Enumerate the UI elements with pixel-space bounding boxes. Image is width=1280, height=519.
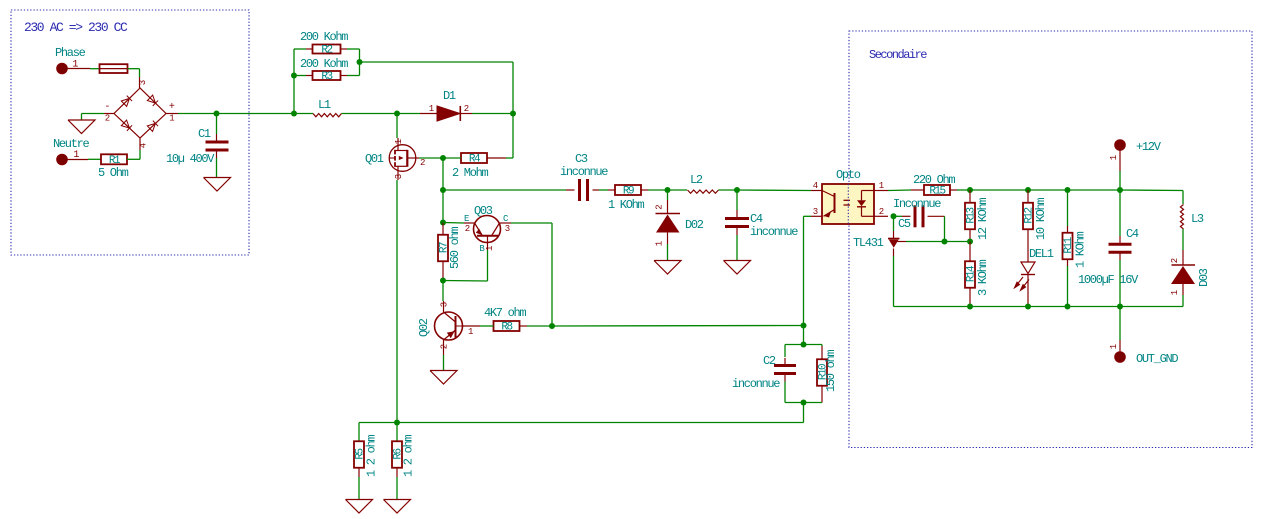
wire C4 node to opto pin4 (737, 189, 811, 192)
wire bus C1 to R2R3 rail (217, 113, 295, 115)
junction DEL1 bottom (1025, 304, 1031, 310)
wire R4 right up to D1 node (487, 114, 513, 159)
wire snubber bottom to sense rail (397, 403, 804, 423)
label C4 filter value inconnue (750, 225, 798, 239)
wire Q01 source down to sense node (396, 180, 398, 423)
wire OUT_GND node down (1119, 307, 1121, 353)
label R13 value 12 KOhm (976, 198, 990, 240)
svg-text:+: + (169, 102, 175, 113)
svg-text:150 ohm: 150 ohm (824, 350, 838, 392)
svg-text:560 ohm: 560 ohm (448, 227, 462, 269)
ground at D02 (654, 261, 681, 275)
svg-text:200 Kohm: 200 Kohm (300, 57, 348, 71)
svg-text:10µ 400V: 10µ 400V (166, 152, 215, 166)
wire Q02 base to R8 (480, 325, 494, 327)
wire R5 to ground (358, 468, 360, 500)
svg-text:+12V: +12V (1136, 140, 1162, 154)
label C3 (575, 152, 588, 166)
wire R3 right to rail (341, 62, 360, 76)
ground at C4 filter (724, 261, 751, 275)
svg-text:1 KOhm: 1 KOhm (608, 198, 645, 212)
wire Q03 collector right and down (511, 223, 552, 326)
svg-text:1: 1 (879, 181, 884, 191)
junction opto feedback node (801, 323, 807, 329)
junction R3 left rail (291, 73, 297, 79)
label TL431 (853, 236, 884, 250)
resistor R3 (313, 71, 341, 83)
svg-text:Secondaire: Secondaire (869, 48, 927, 62)
wire fuse to bridge top corner (128, 69, 140, 77)
graphic box Secondaire section (849, 31, 1252, 448)
wire TL431 anode down (893, 249, 895, 307)
svg-text:2 Mohm: 2 Mohm (452, 166, 489, 180)
connector pin +12V (1109, 140, 1125, 161)
svg-text:12 KOhm: 12 KOhm (976, 198, 990, 240)
diode bridge rectifier (104, 88, 175, 138)
label Q03 (474, 204, 493, 218)
label DEL1 (1029, 247, 1054, 261)
label L2 (690, 173, 703, 187)
capacitor C3 (580, 179, 588, 201)
junction bus at Q01 drain (394, 111, 400, 117)
label D03 (1197, 268, 1211, 287)
wire D02 anode to ground (667, 233, 669, 261)
svg-text:inconnue: inconnue (732, 377, 780, 391)
resistor R8 (494, 321, 520, 334)
wire snubber top left to C2 (785, 345, 804, 358)
wire R1 to bridge bottom (127, 150, 140, 159)
graphic Secondaire border over opto (847, 184, 849, 224)
wire R3 left stub (294, 75, 313, 77)
graphic box primary 230AC section (11, 10, 249, 255)
svg-text:3: 3 (138, 80, 148, 85)
svg-text:2: 2 (879, 207, 884, 217)
svg-text:1000µF 16V: 1000µF 16V (1078, 273, 1139, 287)
label L1 (318, 98, 331, 112)
wire Q03 emitter to node (443, 222, 464, 225)
wire L2 to C4 node (719, 189, 738, 191)
fuse F1 (100, 64, 128, 73)
ground at Q02 (430, 371, 457, 385)
wire bridge pin3 stub (138, 77, 148, 88)
capacitor C2 (774, 358, 796, 382)
svg-text:3: 3 (505, 224, 510, 234)
capacitor C5 (915, 205, 923, 227)
resistor R15 (924, 185, 950, 198)
junction R2R3 right rail (357, 59, 363, 65)
wire R11 top (1067, 190, 1069, 233)
wire R12 to DEL1 (1027, 229, 1029, 262)
resistor R13 (965, 203, 978, 230)
ground at R5 (346, 500, 373, 514)
svg-text:C1: C1 (198, 127, 211, 141)
svg-text:R3: R3 (321, 71, 332, 83)
resistor R1 (101, 154, 127, 167)
wire rail node to C3 (443, 189, 575, 191)
svg-text:C3: C3 (575, 152, 588, 166)
wire C4out bottom (1119, 253, 1121, 307)
junction R14 bottom (967, 304, 973, 310)
wire R2R3 node to D1 output (360, 62, 514, 114)
wire R13 bottom stub (969, 229, 971, 242)
label R12 value 10 KOhm (1034, 198, 1048, 240)
wire TL431 ref to divider (906, 241, 970, 243)
wire bus R2R3 to L1 (294, 113, 313, 115)
transistor Q01 MOSFET (389, 138, 425, 180)
label R8 value 4K7 ohm (484, 306, 526, 320)
capacitor C1 (206, 142, 229, 150)
junction Q01 gate node (440, 155, 446, 161)
wire C2 bottom (785, 382, 804, 403)
svg-text:Phase: Phase (55, 46, 86, 60)
label Opto (836, 168, 861, 182)
inductor L1 (313, 114, 342, 117)
svg-text:D02: D02 (685, 218, 704, 232)
svg-text:inconnue: inconnue (560, 165, 608, 179)
wire R9 to D02 node (641, 189, 668, 191)
text Secondaire (869, 48, 927, 62)
resistor R14 (965, 261, 978, 288)
wire L3 to D03 (1182, 229, 1184, 265)
label D1 (443, 89, 456, 103)
label C1 value 10u 400V (166, 152, 215, 166)
wire R15 to R13 node (950, 189, 970, 191)
capacitor C4 filter (725, 219, 749, 227)
wire Q01 pin2 to node (419, 157, 443, 159)
svg-text:1: 1 (169, 114, 174, 124)
junction R11 top (1065, 187, 1071, 193)
label Q01 (365, 152, 384, 166)
wire Phase pin to fuse (67, 68, 99, 70)
connector pin OUT_GND (1109, 344, 1125, 362)
wire TL431 down from pin2 node (893, 216, 895, 238)
junction bus at R2R3 rail (291, 111, 297, 117)
svg-text:Q01: Q01 (365, 152, 384, 166)
label Neutre (53, 137, 90, 151)
label R15 value 220 Ohm (913, 173, 955, 187)
diode D1 (429, 104, 469, 121)
wire D02 node to diode (667, 190, 669, 213)
svg-text:2: 2 (440, 344, 450, 349)
resistor R5 (354, 441, 367, 468)
svg-text:2: 2 (464, 104, 469, 114)
resistor R6 (392, 441, 405, 468)
svg-text:1: 1 (429, 104, 434, 114)
junction opto pin2 node (891, 213, 897, 219)
svg-text:1 KOhm: 1 KOhm (1074, 231, 1088, 268)
inductor L3 (1180, 205, 1183, 229)
svg-text:1: 1 (655, 241, 665, 246)
wire bridge plus to C1 node (166, 113, 217, 115)
svg-text:E: E (464, 214, 469, 224)
svg-text:R2: R2 (321, 45, 332, 57)
label R6 value 1 2 ohm (402, 435, 416, 477)
label D02 (685, 218, 704, 232)
wire node down to snubber loop (803, 326, 805, 345)
svg-text:Inconnue: Inconnue (893, 197, 941, 211)
label C4 filter (750, 212, 763, 226)
svg-text:C4: C4 (1126, 227, 1139, 241)
svg-text:inconnue: inconnue (750, 225, 798, 239)
wire Q01 node to D1 (397, 113, 437, 115)
junction D02 node (665, 187, 671, 193)
transistor Q02 (435, 301, 481, 355)
svg-text:1 2 ohm: 1 2 ohm (365, 435, 379, 477)
junction ref node C5 (942, 239, 948, 245)
wire base node down to Q02 (442, 281, 444, 302)
junction +12V node (1117, 187, 1123, 193)
connector pin P2 Neutre (57, 150, 80, 165)
wire opto pin3 to down rail (804, 216, 812, 325)
wire R10 top stub (821, 346, 823, 359)
wire C4 to ground (736, 227, 738, 261)
svg-text:Q03: Q03 (474, 204, 493, 218)
text 230 AC => 230 CC (24, 20, 128, 35)
label C2 (763, 354, 776, 368)
svg-text:R15: R15 (929, 186, 945, 198)
wire R7 bottom to base node (442, 262, 444, 281)
svg-text:4: 4 (139, 143, 149, 148)
svg-text:2: 2 (1170, 258, 1180, 263)
wire R10 bottom (804, 386, 823, 403)
label R14 value 3 KOhm (976, 259, 990, 296)
svg-text:1: 1 (1109, 155, 1119, 160)
svg-text:Opto: Opto (836, 168, 861, 182)
wire DEL1 to bottom rail (1027, 275, 1029, 307)
wire +12V node up (1119, 150, 1121, 190)
ground at C1 (204, 178, 231, 192)
svg-text:DEL1: DEL1 (1029, 247, 1054, 261)
wire Neutre pin to R1 (67, 158, 101, 160)
label R11 value 1 KOhm (1074, 231, 1088, 268)
wire rail R11 to +12V node (1068, 189, 1121, 191)
junction bus at C1 (214, 111, 220, 117)
wire C3 to R9 (593, 189, 616, 191)
wire rail R12 to R11 (1028, 189, 1068, 191)
wire C4 node down (736, 190, 738, 218)
svg-text:Q02: Q02 (417, 318, 431, 337)
transistor Q03 (464, 214, 511, 254)
capacitor C4 output (1109, 244, 1132, 252)
wire node to R4 left (443, 157, 461, 159)
junction sense node (394, 420, 400, 426)
label R1 value 5 Ohm (98, 166, 129, 180)
svg-text:2: 2 (420, 158, 425, 168)
wire node to R7 top (442, 223, 444, 236)
junction Q03 base node (440, 278, 446, 284)
regulator U TL431 (888, 239, 906, 248)
svg-text:TL431: TL431 (853, 236, 884, 250)
label C4 output value 1000uF 16V (1078, 273, 1139, 287)
wire sense node to R6 (396, 423, 398, 442)
svg-text:C5: C5 (898, 217, 911, 231)
label C1 (198, 127, 211, 141)
diode D03 (1170, 258, 1195, 295)
svg-text:1: 1 (468, 327, 473, 337)
wire Q02 emitter to ground (443, 355, 445, 371)
svg-text:C4: C4 (750, 212, 763, 226)
junction Q03 emitter node (440, 220, 446, 226)
wire D02 node to L2 (668, 189, 688, 191)
wire R6 to ground (396, 468, 398, 500)
label C4 output (1126, 227, 1139, 241)
svg-text:3: 3 (440, 302, 450, 307)
junction R11 bottom (1065, 304, 1071, 310)
junction snubber top (801, 342, 807, 348)
wire C1 to ground (216, 150, 218, 178)
svg-text:5 Ohm: 5 Ohm (98, 166, 129, 180)
label C5 (898, 217, 911, 231)
svg-text:L1: L1 (318, 98, 331, 112)
wire Q03 base loop (443, 250, 488, 281)
label R5 value 1 2 ohm (365, 435, 379, 477)
svg-text:1: 1 (485, 246, 495, 251)
wire bridge pin4 stub (139, 138, 149, 150)
svg-text:3: 3 (813, 207, 818, 217)
resistor R12 (1023, 203, 1036, 230)
junction C4out bottom (1117, 304, 1123, 310)
junction R13 top (967, 187, 973, 193)
wire bridge minus to ground (82, 114, 115, 121)
wire rail to Q03 emitter node (442, 190, 444, 223)
wire sense node to R5 (359, 423, 397, 442)
svg-text:-: - (104, 102, 109, 113)
label +12V (1136, 140, 1162, 154)
wire C5 right to ref node (928, 216, 945, 241)
svg-text:OUT_GND: OUT_GND (1136, 352, 1178, 366)
label R10 value 150 ohm (824, 350, 838, 392)
svg-text:R8: R8 (501, 322, 512, 334)
wire secondary bottom rail (894, 306, 1184, 308)
junction R8 node (549, 323, 555, 329)
svg-text:1 2 ohm: 1 2 ohm (402, 435, 416, 477)
junction snubber bottom (801, 400, 807, 406)
svg-text:L3: L3 (1191, 212, 1204, 226)
wire R2 right to rail (341, 49, 360, 62)
resistor R7 (438, 235, 451, 262)
label L3 (1191, 212, 1204, 226)
svg-text:2: 2 (655, 205, 665, 210)
svg-text:1: 1 (1170, 290, 1180, 295)
svg-text:C2: C2 (763, 354, 776, 368)
wire rail down to bus (293, 76, 295, 114)
inductor L2 (688, 190, 719, 193)
wire R12 top stub (1027, 190, 1029, 203)
svg-text:L2: L2 (690, 173, 703, 187)
svg-text:D03: D03 (1197, 268, 1211, 287)
resistor R2 (313, 45, 341, 57)
svg-text:1: 1 (394, 139, 404, 144)
wire D1 to right node (460, 113, 513, 115)
led DEL1 (1015, 262, 1036, 290)
resistor R10 (817, 359, 830, 386)
wire bus to Q01 drain (396, 114, 398, 139)
label C3 value inconnue (560, 165, 608, 179)
label C5 value Inconnue (893, 197, 941, 211)
label R4 value 2 Mohm (452, 166, 489, 180)
junction divider mid (967, 239, 973, 245)
wire pin2 node to C5 (894, 215, 911, 217)
svg-text:230 AC => 230 CC: 230 AC => 230 CC (24, 20, 128, 35)
svg-text:3: 3 (394, 174, 404, 179)
svg-text:200 Kohm: 200 Kohm (300, 30, 348, 44)
connector pin P1 Phase (57, 60, 79, 74)
svg-text:2: 2 (465, 224, 470, 234)
svg-text:1: 1 (1109, 344, 1119, 349)
wire R13 top stub (969, 190, 971, 203)
label Phase (55, 46, 86, 60)
wire R14 bottom stub (969, 288, 971, 307)
resistor R4 (461, 153, 487, 166)
svg-text:Neutre: Neutre (53, 137, 90, 151)
svg-text:4K7 ohm: 4K7 ohm (484, 306, 526, 320)
wire gate node down to C3 rail (442, 158, 444, 190)
wire R8 node to opto node (552, 325, 804, 328)
label Q02 (417, 318, 431, 337)
wire rail R13 to R12 (970, 189, 1028, 191)
wire snubber top right to R10 (804, 345, 823, 347)
label R7 value 560 ohm (448, 227, 462, 269)
wire opto pin1 to R15 (888, 189, 924, 192)
ground at R6 (384, 500, 411, 514)
ground at bridge minus (68, 120, 95, 134)
svg-text:3 KOhm: 3 KOhm (976, 259, 990, 296)
label R9 value 1 KOhm (608, 198, 645, 212)
junction C3 rail tap (440, 187, 446, 193)
optocoupler U-Opto (811, 181, 888, 224)
wire R8 to collector node (520, 325, 553, 327)
wire D03 to bottom rail (1182, 284, 1184, 307)
junction C4 node (734, 187, 740, 193)
label R3 value 200 Kohm (300, 57, 348, 71)
junction D1 output node (510, 111, 516, 117)
wire R2 left to rail (294, 49, 313, 76)
wire L1 to Q01 drain node (342, 113, 398, 115)
svg-text:D1: D1 (443, 89, 456, 103)
svg-text:R9: R9 (623, 186, 634, 198)
svg-text:4: 4 (813, 181, 818, 191)
wire C1 node down (216, 114, 218, 143)
wire C4out top (1119, 190, 1121, 244)
junction R12 top (1025, 187, 1031, 193)
label R2 value 200 Kohm (300, 30, 348, 44)
label C2 value inconnue (732, 377, 780, 391)
diode D02 (655, 205, 681, 247)
wire divider mid to R14 (969, 242, 971, 262)
resistor R9 (615, 185, 641, 198)
svg-text:10 KOhm: 10 KOhm (1034, 198, 1048, 240)
resistor R11 (1063, 233, 1076, 260)
wire R11 bottom (1067, 259, 1069, 307)
label OUT_GND (1136, 352, 1178, 366)
svg-text:2: 2 (105, 114, 110, 124)
wire rail to L3 corner (1120, 190, 1183, 204)
